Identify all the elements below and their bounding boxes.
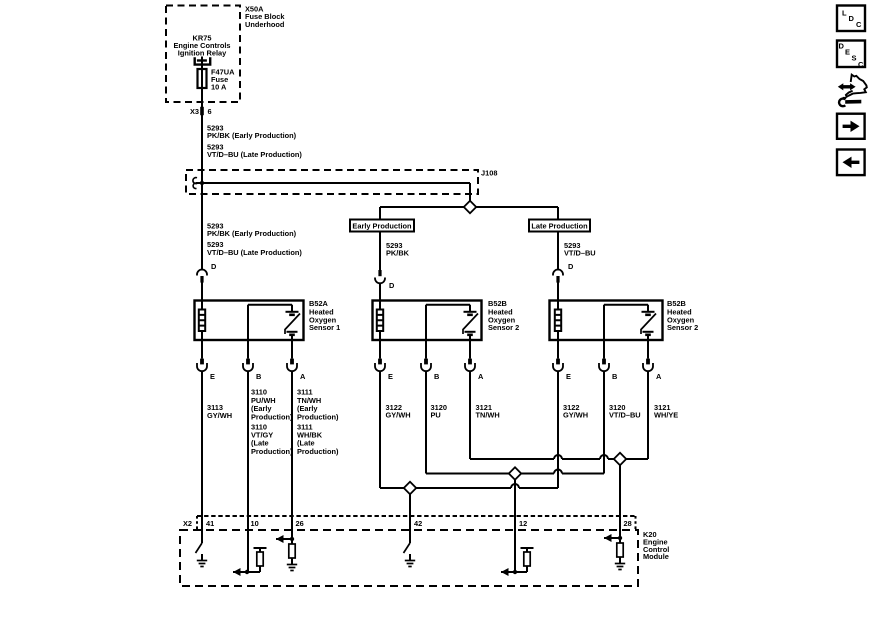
svg-text:Late Production: Late Production xyxy=(531,222,588,231)
svg-text:A: A xyxy=(478,372,484,381)
svg-text:A: A xyxy=(300,372,306,381)
svg-text:S: S xyxy=(852,54,857,63)
svg-text:E: E xyxy=(845,48,850,57)
svg-text:PK/BK (Early Production): PK/BK (Early Production) xyxy=(207,229,297,238)
svg-text:10 A: 10 A xyxy=(211,83,227,92)
svg-text:GY/WH: GY/WH xyxy=(386,411,411,420)
svg-text:Production): Production) xyxy=(297,447,339,456)
svg-text:Production): Production) xyxy=(251,447,293,456)
svg-text:Sensor 2: Sensor 2 xyxy=(488,323,519,332)
svg-text:28: 28 xyxy=(624,519,632,528)
svg-text:L: L xyxy=(842,8,847,17)
svg-text:PK/BK (Early Production): PK/BK (Early Production) xyxy=(207,131,297,140)
svg-text:6: 6 xyxy=(208,107,212,116)
svg-text:X2: X2 xyxy=(183,519,192,528)
svg-text:E: E xyxy=(210,372,215,381)
svg-text:D: D xyxy=(389,281,395,290)
svg-text:B: B xyxy=(256,372,261,381)
svg-text:VT/D–BU (Late Production): VT/D–BU (Late Production) xyxy=(207,248,302,257)
svg-text:B: B xyxy=(434,372,439,381)
svg-text:26: 26 xyxy=(296,519,304,528)
svg-text:12: 12 xyxy=(519,519,527,528)
svg-text:42: 42 xyxy=(414,519,422,528)
svg-text:D: D xyxy=(568,262,574,271)
svg-text:GY/WH: GY/WH xyxy=(563,411,588,420)
svg-text:E: E xyxy=(388,372,393,381)
svg-text:WH/YE: WH/YE xyxy=(654,411,678,420)
svg-text:D: D xyxy=(211,262,217,271)
svg-text:Module: Module xyxy=(643,552,669,561)
svg-text:Production): Production) xyxy=(297,412,339,421)
svg-text:E: E xyxy=(566,372,571,381)
svg-text:PK/BK: PK/BK xyxy=(386,249,410,258)
svg-text:41: 41 xyxy=(206,519,214,528)
svg-text:VT/D–BU: VT/D–BU xyxy=(609,411,641,420)
svg-text:TN/WH: TN/WH xyxy=(476,411,500,420)
svg-text:VT/D–BU: VT/D–BU xyxy=(564,249,596,258)
svg-text:GY/WH: GY/WH xyxy=(207,411,232,420)
svg-text:Early Production: Early Production xyxy=(352,222,412,231)
svg-text:Ignition Relay: Ignition Relay xyxy=(178,49,227,58)
svg-text:C: C xyxy=(858,60,864,69)
svg-text:D: D xyxy=(849,14,855,23)
svg-text:D: D xyxy=(839,42,845,51)
svg-text:Underhood: Underhood xyxy=(245,20,285,29)
svg-text:Sensor 2: Sensor 2 xyxy=(667,323,698,332)
svg-text:VT/D–BU (Late Production): VT/D–BU (Late Production) xyxy=(207,150,302,159)
svg-text:J108: J108 xyxy=(481,169,497,178)
svg-text:X3: X3 xyxy=(190,107,199,116)
svg-text:Production): Production) xyxy=(251,412,293,421)
svg-text:A: A xyxy=(656,372,662,381)
svg-text:B: B xyxy=(612,372,617,381)
svg-text:Sensor 1: Sensor 1 xyxy=(309,323,340,332)
svg-text:10: 10 xyxy=(251,519,259,528)
svg-text:C: C xyxy=(856,20,862,29)
svg-text:PU: PU xyxy=(431,411,441,420)
